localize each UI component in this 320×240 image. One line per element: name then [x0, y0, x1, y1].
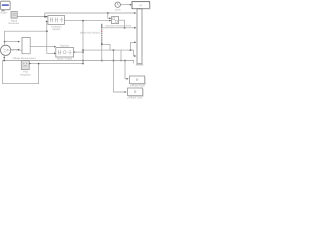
multimeter out wire	[119, 20, 125, 27]
wire U3 port2 riser from below	[46, 21, 48, 31]
vertical x113.4 down to load B2	[113, 50, 125, 92]
fault block B1	[130, 76, 146, 84]
node J9	[124, 27, 126, 29]
voltage measurement block VM (tall)	[22, 37, 31, 54]
synchronous machine M1 (circle)	[1, 45, 11, 55]
svg-text:Scope: Scope	[0, 12, 7, 15]
arrow into bus top-left	[134, 12, 136, 14]
wire J15 down to fault block B1	[125, 61, 127, 79]
node J10 (RLC bottom)	[101, 44, 103, 46]
node J12	[113, 49, 115, 51]
generator block G1	[11, 12, 17, 19]
clock wire to TR block	[120, 4, 130, 6]
U loop wire around PSS	[3, 61, 39, 84]
wire y27.8 from RLC to bus	[102, 27, 136, 29]
multimeter block MM	[112, 17, 119, 24]
wire machine right to measurement port2	[11, 49, 19, 51]
node J6 on U3 out	[82, 20, 84, 22]
svg-text:Series RLC Branch: Series RLC Branch	[80, 31, 101, 34]
bus B (tall rectangle)	[136, 9, 144, 66]
series RLC branch (vertical)	[101, 24, 103, 44]
scope SC1 (monitor icon)	[0, 1, 11, 12]
wire W7 east stub down	[125, 61, 134, 64]
wire J2 down into multimeter port1	[108, 14, 110, 19]
arrow into U3 port1	[46, 16, 48, 18]
node J18	[82, 63, 83, 64]
turbine block TB	[56, 48, 74, 57]
vertical x46.8 down to turbine port2	[47, 31, 55, 53]
long vertical x82.5	[82, 21, 84, 64]
node J3	[46, 31, 48, 33]
wire J13 up into bus	[130, 42, 135, 50]
PSS block	[21, 61, 29, 70]
wire G1 out to block U3 port1	[17, 16, 47, 18]
PSS out wire	[29, 63, 83, 65]
svg-text:Regulator: Regulator	[20, 73, 31, 76]
wire RLC bottom down to W7	[101, 44, 103, 60]
svg-text:3-Phase Fault: 3-Phase Fault	[130, 85, 145, 88]
svg-text:Generator: Generator	[9, 22, 20, 25]
top-right block TR	[132, 2, 150, 10]
turbine out wire to riser	[74, 51, 83, 53]
wire J1 up and east (long top line to bus)	[45, 13, 136, 16]
load block B2	[128, 88, 144, 96]
wire J4 east into measurement port1	[5, 41, 19, 43]
node J14	[113, 60, 115, 62]
U3 out wire east to multimeter port2	[64, 20, 109, 22]
svg-text:Voltage Measurement: Voltage Measurement	[12, 57, 36, 60]
svg-text:Steam Turbine: Steam Turbine	[57, 58, 73, 61]
long wire W7 y60.5	[3, 60, 126, 62]
machine bottom stub	[3, 55, 5, 60]
node J5	[82, 51, 84, 53]
node J11	[101, 60, 103, 62]
arrow into multimeter port1	[109, 17, 111, 19]
node J16	[4, 60, 5, 61]
node J17	[38, 63, 39, 64]
wire y31 to left and down to machine	[5, 31, 47, 41]
wire J4 down to machine top	[4, 42, 6, 46]
clock block CK	[115, 2, 120, 7]
svg-text:System: System	[52, 28, 60, 31]
svg-text:3-Phase Load: 3-Phase Load	[127, 96, 143, 99]
wire VM out east to turbine port1	[30, 46, 54, 48]
node J15	[124, 60, 126, 62]
node J2 on top line	[107, 12, 108, 13]
node J4	[4, 41, 6, 43]
wire J13 east then down into bus at y56	[130, 50, 135, 56]
node J19	[120, 60, 121, 61]
node J13	[130, 49, 132, 51]
excitation block U3	[48, 15, 65, 24]
svg-text:Clock: Clock	[115, 8, 122, 11]
node J8	[82, 60, 84, 62]
wire RLC bottom east then down to y50 line	[102, 44, 110, 50]
node J20	[4, 57, 5, 58]
node J1	[44, 16, 46, 18]
rung x121	[120, 50, 122, 60]
node J7	[82, 49, 84, 51]
long wire y50	[83, 49, 130, 51]
svg-text:Machines Measurement: Machines Measurement	[106, 25, 132, 28]
svg-text:Thyristor: Thyristor	[60, 44, 70, 47]
